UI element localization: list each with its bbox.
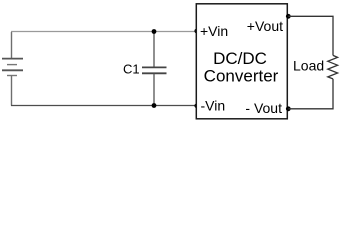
svg-text:DC/DC: DC/DC	[213, 49, 267, 68]
svg-text:-Vin: -Vin	[201, 98, 226, 114]
wire +Vout to load	[288, 16, 333, 55]
node: +Vout junction	[286, 14, 291, 19]
svg-text:Load: Load	[293, 58, 324, 74]
battery B1	[2, 32, 23, 106]
capacitor C1	[142, 32, 167, 106]
svg-text:C1: C1	[123, 61, 140, 76]
wire load to - Vout	[288, 79, 333, 109]
node: top rail / +Vin junction	[194, 29, 199, 34]
resistor Load	[328, 55, 338, 79]
svg-text:+Vout: +Vout	[247, 18, 283, 34]
node: bottom rail / C1 junction	[152, 103, 157, 108]
node: bottom rail / -Vin junction	[194, 103, 199, 108]
svg-text:+Vin: +Vin	[200, 23, 228, 39]
wire top rail	[11, 31, 197, 33]
node: top rail / C1 junction	[152, 29, 157, 34]
wire bottom rail	[11, 105, 197, 107]
converter U1 box	[196, 4, 287, 119]
svg-text:- Vout: - Vout	[245, 100, 282, 116]
node: - Vout junction	[286, 106, 291, 111]
svg-text:Converter: Converter	[204, 67, 279, 86]
